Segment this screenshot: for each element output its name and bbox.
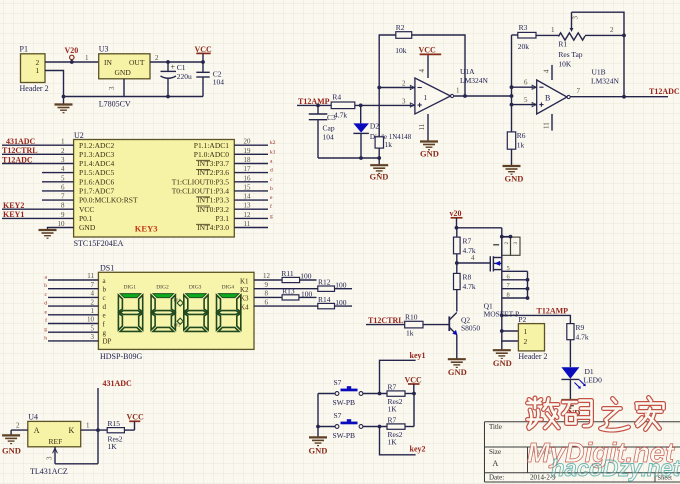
op-amp U1A <box>410 67 488 114</box>
svg-text:K4: K4 <box>240 303 249 311</box>
capacitor C2 104 <box>196 62 224 97</box>
svg-text:R13: R13 <box>282 287 295 296</box>
svg-text:f: f <box>45 317 47 324</box>
svg-text:e: e <box>103 312 106 320</box>
svg-text:1K: 1K <box>388 404 398 413</box>
wire R3 to pot <box>536 34 558 36</box>
svg-text:U1B: U1B <box>592 68 606 77</box>
junction VCC tap <box>201 60 205 64</box>
resistor R12 100 <box>318 278 352 292</box>
ground (P2) <box>493 341 512 368</box>
svg-text:DP: DP <box>103 338 112 346</box>
wire T12AMP to R9 <box>502 315 571 323</box>
DS1 left tiny net labels <box>44 275 47 342</box>
connector P1 <box>20 45 49 94</box>
svg-text:P3.1: P3.1 <box>215 214 229 223</box>
svg-text:P1.6:ADC6: P1.6:ADC6 <box>79 177 114 186</box>
wire U1B pin5 <box>512 104 537 106</box>
power port V20 <box>65 46 79 62</box>
svg-text:R1: R1 <box>558 40 567 49</box>
svg-text:1: 1 <box>85 54 89 62</box>
svg-text:S7: S7 <box>334 378 342 387</box>
svg-text:SW-PB: SW-PB <box>333 398 356 407</box>
wire gnd rail (C3/D2/1k) <box>318 157 379 159</box>
svg-text:k1: k1 <box>270 149 276 155</box>
DS1 left pin numbers <box>87 272 95 341</box>
svg-text:L7805CV: L7805CV <box>99 100 131 109</box>
Q1 drain pins 5-8 comb <box>502 265 530 300</box>
svg-text:1k: 1k <box>385 140 393 149</box>
svg-text:11: 11 <box>87 272 94 280</box>
svg-text:1k: 1k <box>517 140 525 149</box>
svg-text:GND: GND <box>115 68 132 77</box>
DS1 inside pin letters <box>103 277 112 346</box>
svg-text:key1: key1 <box>410 351 426 360</box>
svg-text:T12CTRL: T12CTRL <box>368 316 404 325</box>
svg-text:R15: R15 <box>108 419 121 428</box>
svg-text:3: 3 <box>46 456 54 460</box>
svg-text:b: b <box>270 186 273 192</box>
ground (R6) <box>503 166 524 184</box>
svg-text:d: d <box>270 168 273 174</box>
svg-text:K3: K3 <box>240 295 249 303</box>
svg-text:Size: Size <box>489 448 501 456</box>
wire pot wiper loop <box>572 12 625 97</box>
power port VCC (U4) <box>127 413 145 431</box>
svg-text:R12: R12 <box>318 278 331 287</box>
svg-text:10K: 10K <box>558 60 572 69</box>
svg-text:Title: Title <box>489 423 502 431</box>
svg-text:3: 3 <box>513 242 519 245</box>
op-amp U1B <box>532 68 619 115</box>
svg-text:VCC: VCC <box>79 205 94 214</box>
svg-text:3: 3 <box>108 86 116 90</box>
ground (U4) <box>2 430 21 455</box>
junction C1 tap <box>166 60 170 64</box>
DS1 DIG labels <box>124 285 235 291</box>
svg-text:IN: IN <box>104 58 112 67</box>
svg-text:GND: GND <box>493 358 512 368</box>
svg-text:P1.3:ADC3: P1.3:ADC3 <box>79 150 114 159</box>
wire U1B output to T12ADC <box>570 96 668 98</box>
svg-text:GND: GND <box>2 445 21 455</box>
resistor 1k (op-amp gain) <box>375 88 392 159</box>
power port VCC (keys) <box>405 375 423 393</box>
wire key1 <box>380 360 416 393</box>
wire v20 rail <box>457 227 502 229</box>
svg-text:V20: V20 <box>65 46 79 55</box>
resistor R2 10k <box>395 23 411 55</box>
svg-text:hacoDzy.net: hacoDzy.net <box>551 455 680 481</box>
svg-text:2: 2 <box>524 337 528 346</box>
watermark 数码之家 <box>528 398 664 431</box>
svg-text:Header 2: Header 2 <box>518 352 547 361</box>
wire 431ADC vertical <box>97 388 99 464</box>
svg-text:P0.0:MCLKO:RST: P0.0:MCLKO:RST <box>79 196 138 205</box>
DS1 colon dots <box>174 298 184 328</box>
svg-text:f: f <box>270 203 272 210</box>
svg-text:g: g <box>103 329 107 337</box>
svg-text:1: 1 <box>86 421 90 429</box>
resistor R9 4.7k <box>567 323 589 367</box>
svg-text:A: A <box>34 426 40 435</box>
svg-text:P1.0:ADC0: P1.0:ADC0 <box>194 150 229 159</box>
svg-text:R10: R10 <box>405 313 418 322</box>
wire U1B pin6 <box>512 86 537 88</box>
resistor R14 100 <box>318 295 352 309</box>
wire T12AMP to R4 <box>297 104 331 106</box>
svg-text:P1.7:ADC7: P1.7:ADC7 <box>79 187 114 196</box>
svg-text:T12AMP: T12AMP <box>298 97 330 106</box>
svg-text:LM324N: LM324N <box>460 76 489 85</box>
svg-text:+: + <box>171 63 176 72</box>
svg-text:T12ADC: T12ADC <box>649 87 680 96</box>
svg-text:P1.4:ADC4: P1.4:ADC4 <box>79 159 114 168</box>
svg-text:4.7k: 4.7k <box>334 111 347 120</box>
power port v20 <box>450 209 463 228</box>
shunt reference U4 TL431ACZ <box>28 413 81 476</box>
svg-text:12: 12 <box>263 272 271 280</box>
svg-text:R4: R4 <box>332 93 341 102</box>
svg-text:1: 1 <box>524 327 528 336</box>
wire U3 pin2 out <box>150 61 203 63</box>
svg-text:GND: GND <box>448 367 467 377</box>
svg-text:C1: C1 <box>177 63 186 72</box>
svg-text:SW-PB: SW-PB <box>333 431 356 440</box>
svg-text:LED0: LED0 <box>584 376 603 385</box>
svg-text:v20: v20 <box>450 209 462 218</box>
svg-text:REF: REF <box>49 437 63 446</box>
svg-text:VCC: VCC <box>127 413 145 422</box>
svg-text:T12AMP: T12AMP <box>537 307 569 316</box>
DS1 digit 2 <box>151 294 175 332</box>
svg-text:R3: R3 <box>519 23 528 32</box>
svg-text:BP2: BP2 <box>174 323 181 328</box>
svg-text:1: 1 <box>424 93 428 102</box>
svg-text:R14: R14 <box>318 295 331 304</box>
U1A pin11 GND <box>418 114 439 159</box>
DS1 right pin numbers <box>263 272 271 306</box>
svg-text:d: d <box>44 301 47 307</box>
svg-text:key2: key2 <box>410 444 426 453</box>
wire P1 pin2 to V20 node <box>45 61 72 63</box>
svg-text:P1: P1 <box>20 45 28 54</box>
svg-text:KEY2: KEY2 <box>3 201 24 210</box>
svg-text:B: B <box>545 94 550 103</box>
svg-text:4: 4 <box>543 69 551 73</box>
DS1 digit 4 <box>217 294 241 332</box>
svg-text:K2: K2 <box>240 286 249 294</box>
svg-text:100: 100 <box>335 298 347 307</box>
U1A pin4 VCC <box>418 46 441 79</box>
svg-text:431ADC: 431ADC <box>6 137 36 146</box>
svg-text:4: 4 <box>91 290 95 298</box>
svg-text:2: 2 <box>610 26 614 34</box>
ground (U2 pin10) <box>39 230 57 238</box>
svg-text:8: 8 <box>507 292 510 299</box>
svg-text:2: 2 <box>504 242 510 245</box>
resistor R7 Res2 1K (upper pullup) <box>387 383 414 414</box>
svg-text:3: 3 <box>402 97 406 105</box>
U2 right pin names <box>172 141 230 232</box>
svg-text:R7: R7 <box>388 416 397 425</box>
svg-text:g: g <box>270 213 273 219</box>
svg-text:KEY1: KEY1 <box>3 210 24 219</box>
U2 right pin numbers <box>244 138 252 228</box>
wire P1 pin1 down <box>45 71 64 97</box>
svg-text:R7: R7 <box>463 237 472 246</box>
wire VCC pullup rail <box>413 394 415 427</box>
svg-text:6: 6 <box>265 298 269 306</box>
DS1 K pin names <box>240 277 249 311</box>
svg-text:1: 1 <box>36 66 40 75</box>
svg-text:K: K <box>69 426 75 435</box>
svg-text:1K: 1K <box>388 437 398 446</box>
svg-text:OUT: OUT <box>129 58 145 67</box>
svg-text:1: 1 <box>91 307 95 315</box>
U2 right tiny net labels <box>270 140 276 219</box>
svg-text:DS1: DS1 <box>100 264 114 273</box>
svg-text:2: 2 <box>16 421 20 429</box>
wire U4 pin2 (A) <box>11 429 28 431</box>
svg-text:R6: R6 <box>517 131 526 140</box>
svg-text:U1A: U1A <box>460 67 475 76</box>
svg-text:TL431ACZ: TL431ACZ <box>30 467 68 476</box>
resistor R11 100 <box>281 269 316 283</box>
svg-text:3: 3 <box>572 16 580 20</box>
svg-text:2: 2 <box>402 80 406 88</box>
power port VCC (top) <box>195 45 213 62</box>
MCU U2 STC15F204EA <box>74 131 235 248</box>
svg-text:GND: GND <box>370 172 389 182</box>
switch S7 (lower) SW-PB <box>318 411 387 440</box>
svg-text:6: 6 <box>524 79 528 87</box>
svg-text:VCC: VCC <box>405 375 423 384</box>
wire R2 right feedback <box>412 35 465 96</box>
DS1 digit 3 <box>184 294 208 332</box>
DS1 digit 1 <box>118 294 142 332</box>
svg-text:2: 2 <box>91 298 95 306</box>
svg-text:KEY3: KEY3 <box>135 224 158 234</box>
svg-text:GND: GND <box>505 174 524 184</box>
svg-text:104: 104 <box>213 78 225 87</box>
transistor Q2 S8050 <box>449 313 480 359</box>
svg-text:T0:CLIOUT1:P3.4: T0:CLIOUT1:P3.4 <box>172 187 230 196</box>
svg-text:1: 1 <box>456 87 460 95</box>
svg-text:R7: R7 <box>388 383 397 392</box>
svg-text:D1: D1 <box>585 367 594 376</box>
svg-text:9: 9 <box>265 281 269 289</box>
svg-text:STC15F204EA: STC15F204EA <box>74 239 124 248</box>
resistor R3 20k <box>512 23 537 51</box>
wire R4 to op-amp pin3 <box>355 104 415 106</box>
svg-text:DIG2: DIG2 <box>156 285 169 291</box>
svg-text:5: 5 <box>507 265 510 272</box>
svg-text:Date:: Date: <box>489 474 504 482</box>
svg-text:5: 5 <box>524 96 528 104</box>
svg-text:R2: R2 <box>396 23 405 32</box>
svg-text:T1:CLIOUT0:P3.5: T1:CLIOUT0:P3.5 <box>172 177 230 186</box>
svg-text:P0.1: P0.1 <box>79 214 93 223</box>
svg-text:7: 7 <box>91 281 95 289</box>
svg-text:R9: R9 <box>576 323 585 332</box>
junction C3 tap <box>316 104 320 108</box>
DS1 right pin wires <box>254 280 318 306</box>
svg-text:10k: 10k <box>395 46 407 55</box>
svg-text:GND: GND <box>420 149 439 159</box>
svg-text:R8: R8 <box>463 273 472 282</box>
resistor R15 Res2 1K <box>107 419 134 451</box>
svg-text:d: d <box>103 303 107 311</box>
wire mid node vertical <box>511 35 513 132</box>
svg-text:3: 3 <box>91 333 95 341</box>
svg-text:100: 100 <box>300 272 312 281</box>
U2 left pin numbers <box>58 138 66 228</box>
svg-text:BP1: BP1 <box>174 298 181 303</box>
resistor R13 100 <box>282 287 316 300</box>
svg-text:4: 4 <box>418 69 426 73</box>
DS1 left pin wires <box>48 280 98 341</box>
connector P2 <box>500 315 548 361</box>
wire Q1 drain vertical <box>501 228 503 342</box>
LED D1 LED0 <box>561 367 602 400</box>
wire V20 node to U3 pin1 <box>72 61 99 63</box>
resistor R10 1k <box>366 313 449 338</box>
svg-text:U4: U4 <box>28 413 38 422</box>
wire U3 pin3 <box>123 79 125 97</box>
svg-text:P1.5:ADC5: P1.5:ADC5 <box>79 168 114 177</box>
capacitor C1 220u <box>161 62 193 97</box>
svg-text:4.7k: 4.7k <box>576 333 589 342</box>
wire U4 pin1 (K) <box>81 429 108 431</box>
svg-text:DIG1: DIG1 <box>124 285 137 291</box>
resistor R7 Res2 1K (lower pullup) <box>387 416 414 447</box>
svg-text:K1: K1 <box>240 277 249 285</box>
svg-text:T12CTRL: T12CTRL <box>2 146 38 155</box>
wire gate <box>457 262 491 264</box>
ground (input stage) <box>55 97 73 113</box>
svg-text:GND: GND <box>79 223 96 232</box>
svg-text:b: b <box>103 286 107 294</box>
svg-text:8: 8 <box>265 290 269 298</box>
svg-text:h: h <box>44 335 47 341</box>
svg-text:4.7k: 4.7k <box>463 282 476 291</box>
svg-text:S8050: S8050 <box>461 324 480 333</box>
svg-text:2: 2 <box>155 54 159 62</box>
wire key2 <box>380 427 416 455</box>
ground (Q2 emitter) <box>448 359 467 377</box>
svg-text:11: 11 <box>543 122 551 129</box>
junction V20 node <box>70 60 74 64</box>
wire bottom rail <box>64 96 204 98</box>
svg-text:GND: GND <box>309 445 328 455</box>
svg-text:U3: U3 <box>99 45 109 54</box>
svg-text:4: 4 <box>471 254 475 262</box>
svg-text:VCC: VCC <box>419 46 437 55</box>
svg-text:11: 11 <box>418 123 426 130</box>
svg-text:P2: P2 <box>518 315 526 324</box>
switch S7 (upper) SW-PB <box>318 378 387 407</box>
svg-text:1K: 1K <box>108 442 118 451</box>
U1B pin11 stub <box>551 114 553 131</box>
svg-text:10: 10 <box>87 316 95 324</box>
U4 REF pin loop <box>46 447 99 464</box>
svg-text:D2: D2 <box>370 122 379 131</box>
svg-text:LM324N: LM324N <box>591 77 620 86</box>
svg-text:P1.1:ADC1: P1.1:ADC1 <box>194 141 229 150</box>
resistor R6 1k <box>507 131 526 166</box>
wire switches common <box>317 394 319 438</box>
svg-text:P1.2:ADC2: P1.2:ADC2 <box>79 141 114 150</box>
diode D2 1N4148 <box>353 105 411 158</box>
wire U1A output <box>454 95 512 97</box>
resistor R8 4.7k <box>454 273 476 312</box>
svg-text:T12ADC: T12ADC <box>2 155 33 164</box>
svg-text:S7: S7 <box>334 411 342 420</box>
capacitor C3 104 <box>309 105 336 158</box>
resistor R7 4.7k <box>454 228 476 274</box>
svg-text:DIG4: DIG4 <box>222 285 235 291</box>
svg-text:U2: U2 <box>74 131 84 140</box>
svg-text:104: 104 <box>323 133 335 142</box>
svg-text:1k: 1k <box>406 329 414 338</box>
svg-text:7: 7 <box>577 87 581 95</box>
junction D2 tap <box>359 104 363 108</box>
svg-text:c: c <box>103 294 106 302</box>
svg-text:100: 100 <box>335 281 347 290</box>
svg-text:DIG3: DIG3 <box>189 285 202 291</box>
junction T12AMP node <box>500 314 504 318</box>
MOSFET Q1 symbol <box>484 256 520 318</box>
svg-text:R11: R11 <box>281 269 293 278</box>
MOSFET Q1 package pins 1-3 <box>493 237 520 255</box>
U2 left pin names <box>79 141 138 232</box>
U2 left pin wires <box>2 145 74 229</box>
junction gate node <box>455 261 459 265</box>
display DS1 HDSP-B09G <box>98 264 254 361</box>
svg-text:100: 100 <box>301 289 313 298</box>
regulator U3 L7805CV <box>99 45 150 109</box>
ground (op-amp input stage) <box>370 158 389 182</box>
U2 right pin wires <box>234 145 268 227</box>
svg-text:Header 2: Header 2 <box>20 84 49 93</box>
junction P1 gnd <box>62 95 66 99</box>
svg-text:b: b <box>44 283 47 289</box>
svg-text:220u: 220u <box>177 72 192 81</box>
wire R2 left to pin2 <box>379 35 415 88</box>
potentiometer R1 Res Tap 10K <box>558 12 585 68</box>
title block <box>485 422 680 482</box>
svg-text:g: g <box>44 327 47 333</box>
svg-text:1: 1 <box>551 26 555 34</box>
svg-text:A: A <box>493 459 499 468</box>
svg-text:Cap: Cap <box>323 124 335 133</box>
wire pot pin2 <box>585 34 624 36</box>
svg-text:431ADC: 431ADC <box>103 379 133 388</box>
ground (LED) <box>561 400 580 418</box>
ground (switches) <box>309 437 328 455</box>
svg-text:5: 5 <box>91 324 95 332</box>
svg-text:20k: 20k <box>518 42 530 51</box>
U1B pin4 stub <box>551 65 553 80</box>
junction bottom rail <box>166 95 170 99</box>
svg-text:k2: k2 <box>270 140 276 146</box>
svg-text:HDSP-B09G: HDSP-B09G <box>100 352 142 361</box>
resistor R4 4.7k <box>331 93 355 120</box>
svg-text:Res Tap: Res Tap <box>558 50 582 59</box>
